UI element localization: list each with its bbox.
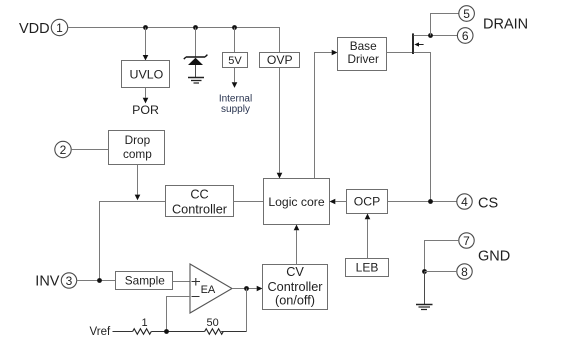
block OCP (347, 190, 388, 214)
svg-text:UVLO: UVLO (130, 67, 164, 81)
svg-text:supply: supply (221, 104, 250, 115)
pin 5 circle (459, 6, 475, 22)
block 5V regulator (223, 53, 248, 68)
wire VDD to UVLO (143, 28, 149, 61)
svg-text:Controller: Controller (172, 202, 228, 216)
node INV junction (97, 278, 102, 283)
svg-text:Logic core: Logic core (268, 195, 324, 209)
op-amp EA (190, 264, 232, 313)
svg-text:POR: POR (132, 103, 159, 117)
wire Logic core to Base Driver (315, 50, 338, 179)
node junction VDD-5V (232, 25, 237, 30)
block Logic core (264, 179, 330, 225)
transistor Q1 gate arrow (414, 42, 423, 46)
node drain junction (428, 33, 433, 38)
wire CC Controller to Logic core (234, 201, 264, 203)
wire drain lead (414, 35, 458, 37)
svg-text:OVP: OVP (267, 53, 293, 67)
node junction VDD-UVLO (143, 25, 148, 30)
wire INV node to CC Controller (100, 202, 166, 281)
node junction VDD-zener (193, 25, 198, 30)
svg-text:6: 6 (462, 29, 469, 43)
block Sample (116, 272, 173, 290)
svg-text:INV: INV (35, 274, 60, 290)
resistor R2 value 50 (205, 317, 224, 334)
svg-text:Drop: Drop (125, 133, 151, 147)
pin 1 circle (51, 19, 67, 35)
wire UVLO to POR (143, 88, 149, 104)
wire INV to Sample (77, 280, 116, 282)
block Base Driver (338, 38, 387, 71)
wire drain to pin 5 (431, 14, 459, 36)
wire OCP to CS (388, 201, 457, 203)
node feedback junction (164, 329, 169, 334)
resistor R1 value 1 (133, 317, 152, 334)
wire VDD bus (68, 28, 280, 53)
wire VDD to 5V block (234, 28, 236, 53)
pin 7 circle (459, 233, 474, 248)
svg-text:3: 3 (66, 274, 73, 288)
wire VDD to zener (195, 28, 197, 58)
svg-text:DRAIN: DRAIN (483, 16, 528, 32)
node CS junction (428, 199, 433, 204)
wire pin8 to ground rail (425, 271, 457, 273)
wire OCP to Logic core (330, 199, 347, 205)
wire R1 to node (151, 331, 204, 333)
wire EA inverting input feedback (167, 297, 191, 332)
pin 3 circle (61, 273, 76, 288)
ground (GND) (416, 305, 433, 310)
wire pin2 to Drop comp (71, 149, 108, 151)
svg-text:(on/off): (on/off) (275, 294, 315, 308)
block OVP (260, 53, 300, 68)
svg-text:1: 1 (141, 317, 147, 329)
svg-text:OCP: OCP (354, 195, 380, 209)
svg-text:CV: CV (286, 265, 304, 279)
wire feedback from output (246, 289, 248, 332)
wire 5V to internal supply (232, 68, 238, 88)
wire pin7 to ground rail (425, 241, 459, 272)
block CC Controller (166, 186, 234, 217)
svg-text:5V: 5V (228, 55, 242, 67)
svg-text:Controller: Controller (268, 280, 324, 294)
net label POR (132, 103, 159, 117)
svg-text:8: 8 (461, 265, 468, 279)
wire Sample to EA (173, 281, 191, 283)
svg-text:2: 2 (60, 143, 67, 157)
svg-text:1: 1 (56, 21, 63, 35)
pin 8 circle (457, 264, 472, 279)
wire ground lead (424, 272, 426, 305)
zener diode (184, 55, 208, 77)
svg-text:LEB: LEB (356, 260, 379, 274)
node EA output junction (244, 286, 249, 291)
pin label INV (35, 274, 60, 290)
pin label CS (478, 195, 498, 211)
block UVLO (122, 61, 170, 88)
svg-text:EA: EA (201, 284, 216, 296)
transistor Q1 channel bar (412, 33, 414, 54)
svg-text:Sample: Sample (125, 273, 165, 287)
svg-text:5: 5 (463, 7, 470, 21)
pin label GND (478, 249, 510, 265)
wire R2 to EA output (221, 331, 246, 333)
block LEB (346, 259, 389, 277)
net label Internal supply (219, 93, 252, 115)
svg-text:GND: GND (478, 249, 510, 265)
net label Vref (90, 326, 111, 338)
block CV Controller (263, 265, 328, 310)
wire source lead (414, 53, 431, 202)
svg-text:7: 7 (463, 234, 470, 248)
svg-text:Vref: Vref (90, 326, 111, 338)
node ground junction (422, 269, 427, 274)
wire EA output to CV Controller (232, 286, 263, 292)
pin label VDD (19, 21, 50, 37)
svg-text:CS: CS (478, 195, 498, 211)
wire LEB to OCP (365, 214, 371, 259)
block Drop comp (109, 131, 165, 165)
svg-text:CC: CC (190, 188, 208, 202)
wire CV Controller to Logic core (294, 225, 300, 265)
svg-text:VDD: VDD (19, 21, 50, 37)
pin 6 circle (457, 28, 473, 44)
svg-text:4: 4 (461, 195, 468, 209)
svg-text:Internal: Internal (219, 93, 252, 104)
wire Drop comp to CC node (135, 165, 141, 201)
pin label DRAIN (483, 16, 528, 32)
svg-text:Driver: Driver (347, 52, 379, 66)
wire gate lead (387, 52, 413, 54)
wire OVP to Logic core (277, 68, 283, 179)
svg-text:50: 50 (206, 317, 218, 329)
wire Vref lead (113, 331, 133, 333)
pin 2 circle (55, 141, 71, 157)
svg-text:comp: comp (123, 147, 152, 161)
svg-text:Base: Base (350, 39, 377, 53)
ground (zener) (188, 78, 204, 84)
pin 4 circle (457, 194, 472, 209)
